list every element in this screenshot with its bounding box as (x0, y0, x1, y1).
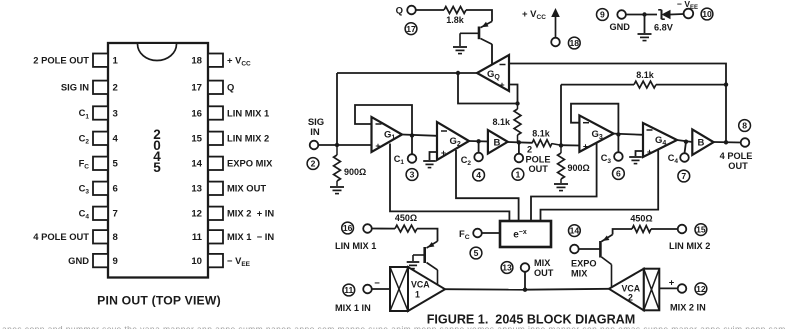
svg-text:17: 17 (191, 83, 202, 94)
node -VEE label (677, 0, 698, 11)
IC U1 pin 4 box (93, 132, 108, 145)
svg-text:IN: IN (310, 127, 320, 138)
wire G1 output row (402, 135, 437, 136)
resistor R2 900ohm input (334, 145, 367, 186)
wire GQ minus input to 4-pole node (509, 64, 726, 143)
IC U1 pin 1 label (33, 54, 89, 65)
IC U1 pin 7 box (93, 207, 108, 220)
svg-text:+: + (583, 142, 588, 152)
terminal C1 (pin 3) (408, 154, 417, 163)
terminal MIX OUT (pin 13) (521, 263, 530, 272)
svg-text:8.1k: 8.1k (532, 129, 551, 139)
svg-text:8.1k: 8.1k (492, 117, 511, 127)
svg-text:MIX 2 + IN: MIX 2 + IN (227, 208, 274, 219)
IC U1 pin 2 box (93, 81, 108, 94)
IC U1 pin 10 box (208, 254, 223, 267)
junction dot G2 output (476, 139, 480, 143)
wire GQ output left (337, 72, 477, 74)
wire C2 drop (478, 141, 480, 152)
junction dot mix node (523, 288, 527, 292)
svg-text:11: 11 (344, 285, 353, 295)
svg-text:VCA: VCA (411, 280, 430, 290)
node GND label (610, 22, 631, 32)
IC U1 pin 8 number (113, 232, 119, 243)
svg-text:POLE: POLE (526, 155, 551, 165)
svg-text:LIN MIX 2: LIN MIX 2 (669, 241, 710, 251)
pin 6 circle (613, 168, 625, 180)
svg-text:1: 1 (113, 56, 119, 67)
wire GQ output down to SIG node (336, 73, 338, 145)
node MIX OUT label (534, 258, 554, 278)
wire GQ loop down (458, 73, 518, 104)
pin 4 circle (473, 169, 485, 181)
IC U1 pin 2 number (113, 83, 118, 94)
svg-text:8.1k: 8.1k (636, 70, 655, 80)
pin 17 circle (405, 23, 417, 35)
junction dot 2-pole node (517, 140, 521, 144)
svg-text:C4: C4 (668, 153, 679, 165)
wire SIG IN to G1 (318, 144, 371, 146)
node Q label (396, 6, 403, 17)
svg-text:4 POLE: 4 POLE (720, 151, 753, 161)
node LIN MIX 2 label (669, 241, 710, 251)
node +VCC label (522, 9, 546, 21)
IC U1 pin 3 box (93, 106, 108, 119)
pin 10 circle (701, 8, 713, 20)
terminal LIN MIX 2 (pin 15) (678, 225, 687, 234)
IC U1 pin 2 label (61, 82, 89, 93)
svg-text:5: 5 (113, 159, 119, 170)
wire R7 to Q2 emitter (417, 229, 438, 242)
resistor R6 8.1k mid (532, 129, 561, 147)
op-amp G1 (372, 117, 403, 152)
IC U1 pin 1 number (113, 56, 119, 67)
wire LIN MIX1 to R7 (372, 228, 395, 230)
junction dot feedback top (724, 82, 728, 86)
svg-text:1: 1 (516, 169, 521, 179)
svg-text:EXPO MIX: EXPO MIX (227, 158, 273, 169)
IC U1 pin 4 number (113, 134, 119, 145)
svg-text:8: 8 (113, 232, 119, 243)
wire 2 POLE OUT drop (518, 142, 520, 153)
wire Q3 emitter to R8 (613, 229, 632, 235)
node MIX 1 IN label (335, 303, 371, 313)
junction dot G3 input node (559, 143, 563, 147)
wire G3 feedback loop (571, 104, 618, 135)
pin 7 circle (678, 170, 690, 182)
svg-text:9: 9 (113, 256, 118, 267)
svg-text:FC: FC (79, 158, 90, 171)
svg-text:C2: C2 (461, 155, 472, 167)
zener diode D1 6.8V (654, 10, 674, 33)
wire GQ plus input (509, 85, 518, 104)
wire FC to e^-x (482, 232, 500, 234)
node FC label (459, 228, 470, 241)
buffer B1 (488, 130, 508, 154)
terminal 2 POLE OUT (pin 1) (515, 154, 524, 163)
IC U1 pin 11 label (227, 231, 274, 242)
svg-text:+ VCC: + VCC (227, 55, 251, 68)
IC U1 pin 6 number (113, 184, 118, 195)
transistor Q2 (PNP, lin mix 1) (413, 241, 438, 284)
node C2 label (461, 155, 472, 167)
IC U1 pin 3 label (79, 107, 90, 120)
svg-text:+: + (441, 148, 446, 158)
resistor R8 450ohm (630, 214, 652, 233)
svg-text:Q: Q (227, 82, 234, 93)
svg-text:+ VCC: + VCC (522, 9, 546, 21)
svg-text:−: − (374, 278, 380, 289)
svg-text:2: 2 (311, 159, 316, 169)
svg-text:C4: C4 (79, 208, 90, 221)
op-amp G4 (643, 123, 677, 157)
pin 2 circle (307, 158, 319, 170)
terminal C2 (pin 4) (474, 153, 483, 162)
node MIX 2 IN label (670, 303, 706, 313)
pin 5 circle (470, 247, 482, 259)
svg-text:B: B (698, 138, 705, 149)
node C4 label (668, 153, 679, 165)
IC U1 pin 15 number (191, 134, 202, 145)
terminal C4 (pin 7) (680, 153, 689, 162)
IC U1 pin 15 label (227, 133, 269, 144)
svg-text:MIX OUT: MIX OUT (227, 183, 266, 194)
IC U1 pin 13 box (208, 182, 223, 195)
svg-text:2: 2 (113, 83, 118, 94)
svg-text:4 POLE OUT: 4 POLE OUT (33, 231, 89, 242)
svg-text:6.8V: 6.8V (654, 23, 674, 33)
IC U1 pin 13 label (227, 183, 266, 194)
svg-text:1.8k: 1.8k (446, 15, 465, 25)
node 2 POLE OUT label (526, 145, 551, 175)
svg-text:11: 11 (192, 232, 203, 243)
svg-text:OUT: OUT (728, 161, 748, 171)
ground at Q2 base (407, 262, 420, 269)
svg-text:+: + (499, 80, 504, 90)
IC U1 pin 5 label (79, 158, 90, 171)
node C1 label (394, 154, 405, 166)
svg-text:2: 2 (527, 145, 532, 155)
terminal SIG IN (pin 2) (310, 141, 319, 150)
wire G4 output (677, 140, 692, 142)
svg-text:GND: GND (610, 22, 631, 32)
cut-off text line from following paragraph (2, 322, 785, 329)
ground below R3 (554, 184, 568, 191)
node LIN MIX 1 label (335, 241, 376, 251)
wire VCA1 output (445, 288, 525, 291)
wire G1 feedback loop (355, 105, 412, 136)
svg-text:− VEE: − VEE (227, 255, 251, 268)
svg-text:16: 16 (343, 223, 353, 233)
svg-text:4: 4 (113, 134, 119, 145)
wire G3 output row (614, 134, 643, 135)
wire R8 to LIN MIX 2 (651, 228, 678, 230)
pin 3 circle (406, 169, 418, 181)
svg-text:+: + (669, 278, 675, 289)
caption FIGURE 1. 2045 BLOCK DIAGRAM (427, 313, 636, 327)
wire B1 output to node (508, 141, 532, 144)
VCA1 amplifier (390, 267, 445, 311)
svg-text:LIN MIX 1: LIN MIX 1 (227, 107, 269, 118)
wire C3 drop (617, 134, 619, 152)
wire MIX1 IN to VCA1 (372, 288, 390, 290)
svg-text:10: 10 (702, 9, 712, 19)
op-amp G3 (579, 115, 613, 151)
ground at Q1 base (453, 47, 467, 54)
terminal C3 (pin 6) (614, 152, 623, 161)
IC U1 pin 17 box (208, 81, 223, 94)
svg-text:18: 18 (570, 38, 580, 48)
svg-text:7: 7 (113, 209, 118, 220)
svg-text:7: 7 (681, 171, 686, 181)
node EXPO MIX label (571, 259, 597, 279)
op-amp GQ (resonance) (477, 55, 509, 91)
wire GND to zener (626, 14, 657, 16)
wire to G3 plus (561, 144, 579, 146)
IC U1 pin 6 label (79, 183, 90, 196)
junction dot SIG node (335, 143, 339, 147)
wire C4 drop (685, 142, 687, 154)
node SIG IN label (308, 117, 324, 138)
IC U1 pin 17 label (227, 82, 234, 93)
svg-text:MIX 1 IN: MIX 1 IN (335, 303, 371, 313)
IC U1 pin 6 box (93, 182, 108, 195)
node 4 POLE OUT label (720, 151, 753, 171)
svg-text:10: 10 (191, 256, 202, 267)
IC U1 pin 5 box (93, 157, 108, 170)
IC U1 pin 9 box (93, 254, 108, 267)
ground below zener junction (638, 34, 652, 41)
svg-text:EXPO: EXPO (571, 259, 597, 269)
wire G4 control riser (541, 149, 659, 221)
svg-text:15: 15 (696, 225, 706, 235)
svg-text:8: 8 (742, 121, 747, 131)
IC U1 pin 12 number (191, 209, 202, 220)
wire G2 control riser (456, 150, 519, 221)
svg-text:14: 14 (570, 226, 580, 236)
junction dot GQ loop (515, 101, 519, 105)
IC U1 pin 14 box (208, 157, 223, 170)
wire Q1 collector to GQ top (491, 44, 493, 64)
terminal LIN MIX 1 (pin 16) (363, 224, 372, 233)
wire G3 control riser (531, 143, 597, 221)
svg-text:GND: GND (68, 255, 89, 266)
junction dot GQ output (456, 71, 460, 75)
pin 1 circle (512, 168, 524, 180)
wire C1 drop (411, 136, 413, 155)
pin 8 circle (739, 120, 751, 132)
transistor Q1 (PNP, Q limiter) (460, 21, 492, 64)
svg-text:3: 3 (410, 170, 415, 180)
IC U1 pin 17 number (191, 83, 202, 94)
IC U1 pin 15 box (208, 132, 223, 145)
terminal MIX 1 IN (pin 11) (363, 285, 372, 294)
IC U1 pin 10 label (227, 255, 251, 268)
wire G1 control riser (390, 144, 509, 222)
svg-text:C1: C1 (394, 154, 405, 166)
terminal FC (pin 5) (473, 229, 482, 238)
wire EXPO to Q3 base (579, 248, 601, 250)
IC U1 pin 9 label (68, 255, 89, 266)
IC U1 pin 14 number (191, 159, 202, 170)
IC U1 pin 18 label (227, 55, 251, 68)
svg-text:B: B (494, 138, 501, 149)
terminal GND (pin 9) (617, 10, 626, 19)
svg-text:C3: C3 (79, 183, 90, 196)
svg-text:450Ω: 450Ω (395, 213, 417, 223)
pin 13 circle (501, 262, 513, 274)
IC U1 pin 9 number (113, 256, 118, 267)
svg-text:17: 17 (406, 24, 416, 34)
svg-text:C2: C2 (79, 133, 90, 146)
junction dot G1 output (410, 133, 414, 137)
pin 15 circle (695, 224, 707, 236)
caption PIN OUT (TOP VIEW) (97, 294, 221, 308)
IC U1 pin 5 number (113, 159, 119, 170)
IC U1 pin 7 number (113, 209, 118, 220)
ground below R2 (330, 187, 344, 194)
plus marker MIX2 (669, 278, 675, 289)
svg-text:14: 14 (191, 159, 202, 170)
svg-text:MIX: MIX (534, 258, 551, 268)
wire G4 plus to ground (636, 151, 644, 156)
svg-text:13: 13 (502, 263, 512, 273)
IC U1 2045 DIP-18 body (108, 43, 208, 278)
wire zener to -VEE terminal (671, 13, 684, 16)
junction dot GND net (642, 12, 646, 16)
transistor Q3 (PNP, expo mix) (600, 235, 612, 288)
svg-text:900Ω: 900Ω (344, 167, 366, 177)
IC U1 pin 8 box (93, 230, 108, 243)
terminal EXPO MIX (pin 14) (570, 245, 579, 254)
svg-text:LIN MIX 2: LIN MIX 2 (227, 133, 269, 144)
svg-text:PIN OUT (TOP VIEW): PIN OUT (TOP VIEW) (97, 294, 221, 308)
svg-text:1: 1 (415, 290, 420, 300)
svg-text:3: 3 (113, 108, 118, 119)
junction dot G3 output (616, 132, 620, 136)
svg-text:2: 2 (628, 293, 633, 303)
IC U1 pin 16 number (191, 108, 202, 119)
IC U1 pin 18 box (208, 54, 223, 67)
IC U1 pin 16 label (227, 107, 269, 118)
IC U1 pin 8 label (33, 231, 89, 242)
IC U1 label 2045 vertical (153, 127, 161, 175)
wire Q to R1 (416, 9, 444, 11)
svg-text:+: + (375, 141, 380, 151)
junction dot 4-pole node (724, 140, 728, 144)
terminal MIX 2 IN (pin 12) (678, 284, 687, 293)
IC U1 pin 10 number (191, 256, 202, 267)
IC U1 pin 14 label (227, 158, 273, 169)
wire G2 output (469, 140, 489, 143)
svg-text:4: 4 (476, 170, 481, 180)
wire mix node up (524, 272, 526, 290)
IC U1 pin 1 box (93, 54, 108, 67)
exponential converter U2 e^-x (500, 221, 551, 247)
svg-text:5: 5 (474, 248, 479, 258)
svg-text:12: 12 (696, 284, 706, 294)
pin 16 circle (342, 222, 354, 234)
svg-text:9: 9 (600, 10, 605, 20)
pin 9 circle (597, 9, 609, 21)
IC U1 pin 11 box (208, 230, 223, 243)
svg-text:15: 15 (191, 134, 202, 145)
svg-text:MIX 2 IN: MIX 2 IN (670, 303, 706, 313)
resistor R3 900ohm mid (558, 145, 590, 183)
svg-text:C1: C1 (79, 107, 90, 120)
wire zener junction to ground (644, 15, 646, 34)
svg-text:6: 6 (113, 184, 118, 195)
IC U1 pin 16 box (208, 106, 223, 119)
pin 11 circle (343, 284, 355, 296)
svg-text:+: + (647, 147, 652, 157)
resistor R4 8.1k vertical (492, 104, 520, 143)
ground at G4 plus (629, 157, 642, 164)
pin 14 circle (569, 225, 581, 237)
junction dot G4 output (684, 140, 688, 144)
supply arrow +VCC (551, 8, 560, 38)
svg-text:C3: C3 (601, 153, 612, 165)
IC U1 orientation notch (138, 44, 177, 61)
svg-text:LIN MIX 1: LIN MIX 1 (335, 241, 376, 251)
node C3 label (601, 153, 612, 165)
wire B2 output to 4 POLE OUT (714, 141, 741, 144)
IC U1 pin 18 number (191, 56, 202, 67)
IC U1 pin 12 label (227, 208, 274, 219)
IC U1 pin 4 label (79, 133, 90, 146)
svg-text:OUT: OUT (529, 164, 549, 174)
svg-text:13: 13 (191, 184, 202, 195)
terminal 4 POLE OUT (pin 8) (741, 138, 750, 147)
terminal -VEE (pin 10) (684, 9, 694, 19)
IC U1 pin 3 number (113, 108, 118, 119)
svg-text:18: 18 (191, 56, 202, 67)
wire R1 to Q1 emitter (466, 10, 492, 21)
wire MIX2 IN to VCA2 (659, 287, 677, 289)
svg-text:FC: FC (459, 228, 470, 241)
svg-text:MIX 1 − IN: MIX 1 − IN (227, 231, 274, 242)
pin 12 circle (695, 283, 707, 295)
wire 8.1k feedback to G3 input node (560, 85, 562, 146)
svg-text:MIX: MIX (571, 269, 588, 279)
wire VCA2 output (525, 288, 609, 291)
IC U1 pin 13 number (191, 184, 202, 195)
svg-text:SIG IN: SIG IN (61, 82, 89, 93)
minus marker MIX1 (374, 278, 380, 289)
wire G2 plus to ground (430, 152, 438, 160)
terminal +VCC (pin 18) (551, 38, 560, 47)
svg-text:900Ω: 900Ω (568, 163, 590, 173)
resistor R5 8.1k top feedback (561, 70, 726, 88)
IC U1 pin 7 label (79, 208, 90, 221)
svg-text:5: 5 (153, 160, 161, 175)
IC U1 pin 12 box (208, 207, 223, 220)
resistor R7 450ohm (395, 213, 417, 232)
svg-text:6: 6 (616, 169, 621, 179)
svg-text:12: 12 (191, 209, 202, 220)
svg-text:2 POLE OUT: 2 POLE OUT (33, 54, 89, 65)
svg-text:450Ω: 450Ω (630, 214, 652, 224)
ground at G2 plus (423, 161, 436, 168)
IC U1 pin 11 number (192, 232, 203, 243)
svg-text:16: 16 (191, 108, 202, 119)
svg-text:OUT: OUT (534, 268, 554, 278)
svg-text:Q: Q (396, 6, 403, 17)
terminal Q (pin 17) (407, 6, 416, 15)
VCA2 amplifier (609, 269, 659, 311)
pin 18 circle (568, 37, 580, 49)
op-amp G2 (437, 122, 469, 160)
